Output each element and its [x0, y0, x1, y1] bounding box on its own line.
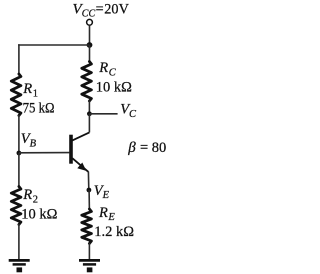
label VC: [120, 101, 137, 120]
label R1: [22, 81, 38, 99]
svg-text:β: β: [127, 140, 136, 156]
label RC: [98, 60, 116, 78]
wire emitter to VE: [87, 172, 89, 191]
resistor RC: [82, 62, 92, 102]
wire VC to collector elbow: [88, 114, 90, 133]
svg-text:C: C: [129, 109, 137, 120]
label R2: [22, 187, 38, 205]
wire RC to VC node: [88, 101, 90, 114]
resistor RE: [82, 209, 92, 244]
svg-text:R: R: [22, 81, 32, 97]
svg-text:10 kΩ: 10 kΩ: [21, 207, 57, 223]
svg-text:R: R: [22, 187, 32, 203]
svg-text:R: R: [98, 205, 108, 221]
wire base: [19, 152, 70, 154]
wire terminal to top junction: [89, 25, 91, 45]
label VCC = 20 V: [73, 2, 130, 20]
svg-text:CC: CC: [82, 9, 96, 20]
resistor R1: [11, 74, 21, 116]
svg-text:10 kΩ: 10 kΩ: [96, 80, 132, 96]
svg-text:E: E: [107, 212, 115, 223]
ground left: [9, 260, 30, 272]
svg-text:2: 2: [33, 195, 38, 206]
svg-text:R: R: [98, 60, 108, 76]
svg-text:B: B: [30, 138, 37, 149]
svg-text:1.2 kΩ: 1.2 kΩ: [94, 224, 134, 240]
node VB: [17, 151, 22, 156]
wire R1 to VB: [18, 115, 20, 153]
label VB: [21, 131, 37, 149]
wire RE to ground: [88, 243, 90, 260]
svg-text:C: C: [109, 67, 117, 78]
transistor Q1 base bar: [69, 135, 73, 164]
wire VE to RE: [88, 190, 90, 210]
wire R2 to ground: [18, 224, 20, 260]
label RE: [98, 205, 115, 223]
wire top junction to RC: [89, 45, 91, 63]
label VE: [94, 183, 110, 201]
svg-text:=: =: [96, 2, 104, 18]
svg-text:E: E: [102, 190, 110, 201]
transistor Q1 emitter arrow: [77, 163, 86, 171]
node VC: [87, 111, 92, 116]
wire top rail: [18, 44, 89, 46]
node top junction: [87, 42, 93, 48]
wire left drop to R1: [18, 44, 20, 75]
transistor Q1 emitter lead: [72, 158, 88, 172]
wire VC stub: [89, 113, 117, 115]
power terminal Vcc: [87, 19, 93, 25]
svg-text:20: 20: [104, 2, 118, 18]
ground right: [79, 260, 100, 272]
svg-text:V: V: [119, 2, 130, 18]
svg-text:= 80: = 80: [140, 140, 166, 156]
svg-text:75 kΩ: 75 kΩ: [23, 101, 55, 117]
transistor Q1 collector lead: [72, 132, 90, 140]
resistor R2: [11, 187, 21, 225]
node VE: [87, 188, 92, 193]
svg-text:1: 1: [33, 89, 38, 100]
wire VB to R2: [18, 153, 20, 188]
label beta = 80: [127, 140, 166, 156]
